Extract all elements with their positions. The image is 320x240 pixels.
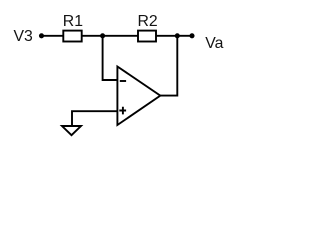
node B junction dot [175,33,180,38]
ground [62,126,81,135]
svg-text:R2: R2 [138,13,158,30]
op-amp non-inverting input mark (+) [119,107,126,115]
svg-text:V3: V3 [14,28,34,45]
wire node A to R2 [103,35,138,37]
op-amp U1 [117,67,160,126]
wire V3 terminal to R1 [42,35,64,37]
svg-text:R1: R1 [63,13,83,30]
terminal dot Va [189,33,194,38]
svg-text:Va: Va [205,35,223,52]
wire node B to output terminal [177,35,192,37]
resistor R2 [138,31,156,42]
resistor R1 [63,31,81,42]
node A junction dot [100,33,105,38]
op-amp inverting input mark (-) [120,80,126,82]
wire R2 to node B [156,35,177,37]
wire node A down to inverting input [103,36,118,80]
wire R1 to node A [82,35,103,37]
terminal dot V3 [39,33,44,38]
wire op-amp output up to node B [160,36,177,96]
wire non-inverting input to ground [72,111,117,126]
